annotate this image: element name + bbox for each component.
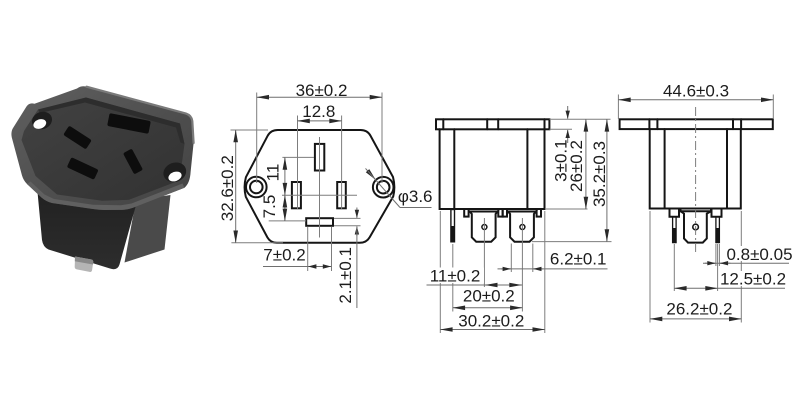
front view: horizontal centerline of side slots: [282, 194, 357, 196]
side view B: thin pin centerlines: [673, 244, 675, 291]
dim 2.1±0.1: [334, 208, 361, 309]
side view A: flange bar: [436, 119, 549, 129]
svg-text:30.2±0.2: 30.2±0.2: [458, 312, 524, 331]
front view: left mounting hole: [246, 177, 267, 198]
svg-text:0.8±0.05: 0.8±0.05: [726, 245, 792, 264]
svg-text:32.6±0.2: 32.6±0.2: [218, 155, 237, 221]
front view: hexagonal flange outline: [245, 130, 395, 243]
side view B: body left step line: [664, 129, 666, 208]
side view B: flange bar: [620, 119, 773, 129]
side view B: body right step line: [726, 129, 728, 208]
side view A: pin B ears: [503, 209, 507, 217]
photo: left mounting hole: [29, 109, 54, 132]
dim φ3.6 leader: [366, 168, 433, 207]
side view A: pin B hole: [520, 225, 525, 230]
dim 20±0.2: [453, 287, 523, 308]
front view: bottom slot: [306, 218, 333, 226]
side view A: pin A ears: [464, 209, 468, 217]
photo: socket body front face: [36, 176, 138, 269]
photo: flange lower edge light: [27, 182, 185, 211]
side view B: pin collar right step: [712, 209, 722, 217]
dim 30.2±0.2: [440, 211, 545, 333]
photo: face inner shadow rim: [38, 98, 185, 145]
svg-text:7.5: 7.5: [260, 195, 279, 219]
svg-text:36±0.2: 36±0.2: [296, 81, 348, 100]
front view: right mounting hole: [373, 177, 394, 198]
side view B: blade hole: [693, 224, 699, 230]
side view B: center blade: [681, 211, 712, 242]
side view A: flange left cap line: [442, 119, 444, 129]
side view B: center blade lip: [681, 209, 712, 212]
side view B: vertical centerline: [695, 107, 697, 252]
dim 0.8±0.05: [703, 244, 793, 266]
side view B: body outline: [650, 129, 741, 208]
svg-text:2.1±0.1: 2.1±0.1: [336, 247, 355, 304]
photo: left slot: [63, 126, 92, 150]
dim 11±0.2: [427, 267, 523, 286]
photo: right slot: [123, 149, 143, 175]
side view B: pin collar left step: [670, 209, 680, 217]
dim 3±0.1: [550, 106, 611, 182]
front view: left pin slot: [292, 182, 301, 208]
svg-text:44.6±0.3: 44.6±0.3: [663, 81, 729, 100]
svg-text:11±0.2: 11±0.2: [430, 267, 481, 286]
dim 32.6±0.2: [218, 130, 283, 243]
svg-text:12.8: 12.8: [302, 102, 335, 121]
dim 12.5±0.2: [674, 270, 786, 289]
photo: right mounting hole: [161, 159, 189, 185]
svg-text:35.2±0.3: 35.2±0.3: [590, 141, 609, 207]
side view A: pin centerlines: [483, 218, 485, 287]
side view A: flange center notch lines: [486, 119, 488, 129]
side view A: body outline: [440, 129, 545, 209]
dim 36±0.2: [257, 81, 382, 183]
photo: mounting flange plate: [11, 86, 193, 210]
svg-text:12.5±0.2: 12.5±0.2: [720, 270, 786, 289]
dim 7.5: [260, 195, 306, 221]
photo: flange top edge highlight: [87, 87, 194, 143]
svg-text:11: 11: [264, 164, 283, 182]
dim 26±0.2: [545, 119, 588, 209]
photo: socket body right side face: [125, 195, 171, 263]
front view: vertical centerline: [319, 137, 321, 238]
side view B: flange slot lines: [648, 119, 650, 129]
dim 6.2±0.1: [498, 244, 608, 273]
side view A: flange right cap line: [544, 119, 546, 129]
side view A: pin A blade: [470, 212, 498, 242]
dim 44.6±0.3: [618, 81, 773, 119]
svg-text:6.2±0.1: 6.2±0.1: [550, 249, 607, 268]
side view A: body right step line: [526, 129, 528, 209]
photo: metal snap tab: [75, 257, 94, 272]
side view A: pin B blade: [508, 212, 536, 242]
front view: top earth slot: [315, 144, 324, 171]
photo: recessed socket face: [22, 98, 185, 201]
svg-text:26.2±0.2: 26.2±0.2: [666, 300, 732, 319]
svg-text:7±0.2: 7±0.2: [263, 246, 305, 265]
side view A: body left step line: [453, 129, 455, 209]
side view A: ground pin: [451, 210, 455, 242]
front view: right pin slot: [337, 182, 346, 208]
side view B: right thin pin: [716, 217, 720, 243]
dim 11: [264, 157, 315, 195]
dim 12.8: [298, 102, 342, 209]
dim 35.2±0.3: [532, 119, 612, 241]
svg-text:20±0.2: 20±0.2: [463, 287, 515, 306]
photo: bottom slot: [67, 157, 99, 180]
svg-text:26±0.2: 26±0.2: [567, 140, 586, 192]
dim 7±0.2: [263, 227, 332, 272]
side view A: pin A hole: [482, 225, 487, 230]
photo: top ground slot: [107, 113, 151, 134]
side view B: left thin pin: [673, 217, 677, 243]
svg-text:φ3.6: φ3.6: [398, 187, 433, 206]
dim 26.2±0.2: [650, 211, 741, 323]
